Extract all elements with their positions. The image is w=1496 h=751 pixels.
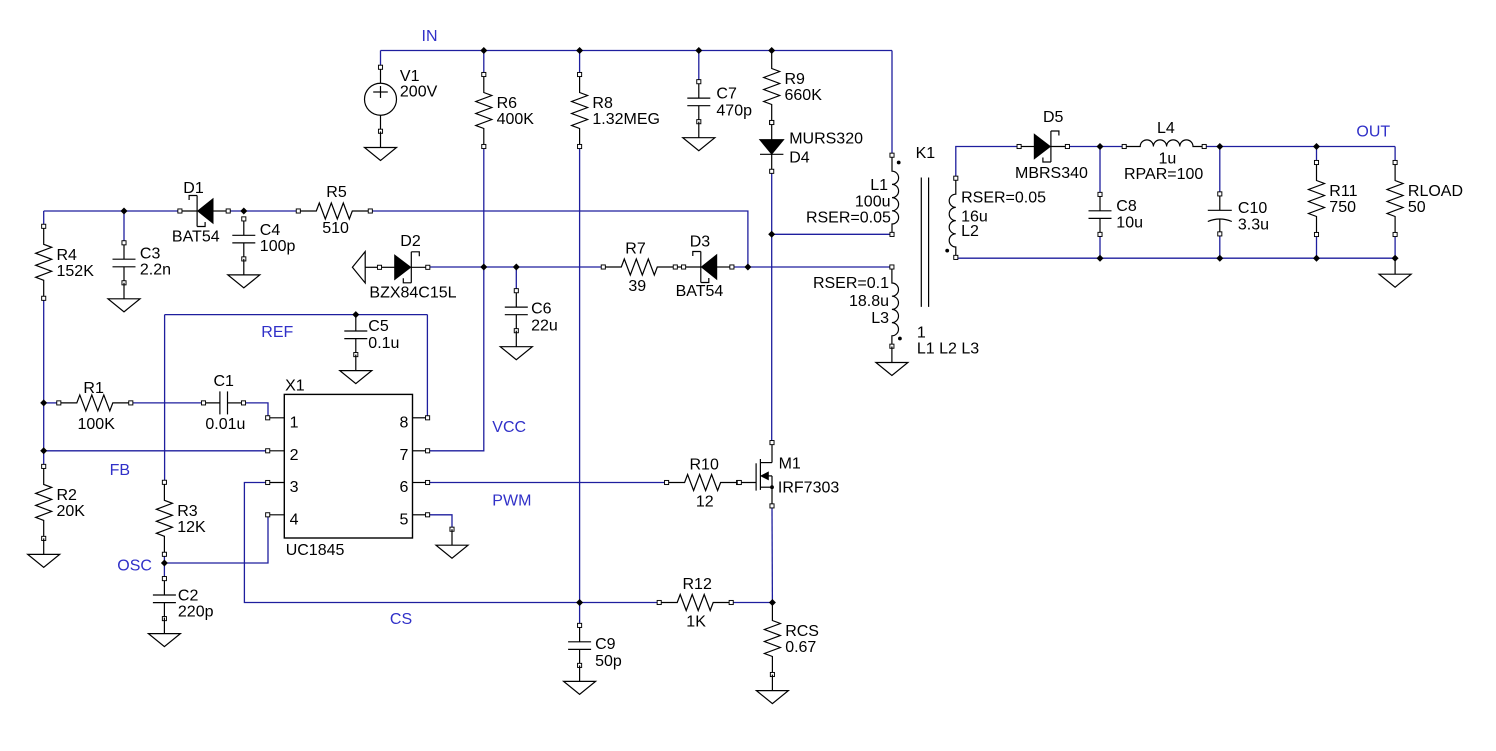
transistor M1 IRF7303 [737,441,839,508]
inductor L2 secondary [949,176,958,259]
ground D2 (rotated left) [352,252,379,283]
svg-text:6: 6 [400,479,409,496]
svg-text:D2: D2 [400,233,421,250]
svg-text:100u: 100u [855,194,891,211]
wire R7-D3 link [676,266,683,268]
L1 phase dot [897,161,901,165]
junction CS RCS [769,599,776,606]
diode D1 BAT54 [172,180,230,246]
svg-text:R1: R1 [83,380,104,397]
wire OSC to pin 4 [164,515,268,563]
wire R6 bottom to VCC rail [483,147,485,268]
resistor R10 [665,456,741,510]
wire R4 column [43,211,45,226]
svg-text:C8: C8 [1116,198,1137,215]
L2 value labels [961,189,1046,240]
junction IN/R6 [480,47,487,54]
wire switch node to M1 drain [771,234,773,442]
junction bottom RLOAD [1392,255,1399,262]
svg-text:510: 510 [322,220,349,237]
wire secondary top L2 to D5 [956,147,1019,179]
junction IN/C7 [695,47,702,54]
svg-text:L3: L3 [871,310,889,327]
svg-text:750: 750 [1329,199,1356,216]
svg-text:VCC: VCC [492,419,526,436]
wire OSC node R3-C2 [163,554,165,578]
junction REF C5 [352,311,359,318]
svg-text:470p: 470p [716,103,752,120]
svg-text:R7: R7 [625,241,646,258]
svg-text:400K: 400K [497,111,535,128]
wire V1 top [380,51,382,68]
svg-text:C10: C10 [1238,200,1267,217]
svg-text:D5: D5 [1043,109,1064,126]
svg-text:1: 1 [290,415,299,432]
wire secondary bottom rail [956,257,1395,259]
wire OUT to RLOAD top [1394,147,1396,163]
resistor R9 [764,51,822,125]
svg-text:REF: REF [261,324,293,341]
ground RCS [756,675,788,704]
svg-text:22u: 22u [531,318,558,335]
svg-text:R12: R12 [683,576,712,593]
svg-text:R11: R11 [1329,183,1357,200]
wire C10 top stub [1219,147,1221,194]
svg-text:L2: L2 [961,223,979,240]
svg-text:IN: IN [422,28,438,45]
wire C7 top [698,51,700,82]
wire C9 top stub [579,603,581,626]
svg-text:C1: C1 [214,373,235,390]
ground C7 [683,122,715,151]
wire R1 row [44,402,59,404]
svg-text:220p: 220p [178,604,214,621]
svg-text:C3: C3 [140,245,161,262]
svg-text:K1: K1 [916,145,936,162]
svg-text:BZX84C15L: BZX84C15L [369,285,456,302]
svg-text:C2: C2 [178,588,199,605]
svg-text:5: 5 [400,511,409,528]
junction IN/R9 [768,47,775,54]
svg-text:20K: 20K [57,503,86,520]
junction bottom C10 [1216,255,1223,262]
resistor R8 [572,72,660,148]
svg-text:R6: R6 [497,95,518,112]
wire REF right vertical to pin 8 [426,315,428,418]
junction FB left [40,447,47,454]
ground C9 [564,665,596,694]
svg-text:R10: R10 [690,456,719,473]
wire D3 anode to L3 [732,266,892,268]
svg-text:PWM: PWM [492,493,531,510]
ground C3 [108,283,140,312]
wire C10 bottom stub [1219,234,1221,258]
wire C8 top stub [1099,147,1101,195]
svg-text:OUT: OUT [1356,124,1390,141]
resistor R5 [296,184,372,237]
junction VCC R6/pin7 [480,264,487,271]
diode D5 MBRS340 [1015,109,1088,182]
svg-text:OSC: OSC [117,558,152,575]
svg-text:C6: C6 [531,301,552,318]
svg-text:RCS: RCS [785,623,819,640]
svg-text:8: 8 [400,415,409,432]
wire pin 7 to VCC [428,267,484,451]
svg-text:4: 4 [290,511,299,528]
wire node A row: R4 to D1 to R5 [44,210,180,212]
wire C3 top [123,211,125,243]
capacitor C8 [1089,192,1144,236]
wire C8 bottom stub [1099,234,1101,258]
diode D4 MURS320 [760,120,863,173]
svg-text:1u: 1u [1159,151,1177,168]
wire R8 bottom to CS node [579,147,581,603]
wire VCC rail D2 to R7 [428,266,604,268]
wire R10 to M1 gate [738,482,741,484]
junction VCC C6 [513,264,520,271]
resistor RCS [764,603,819,677]
wire pin 3 to CS row [244,483,579,603]
L3 value labels [813,275,889,327]
svg-text:18.8u: 18.8u [849,293,889,310]
ground L3 [876,347,908,376]
ground C6 [500,331,532,360]
capacitor C2 [153,577,214,621]
svg-text:1K: 1K [686,614,706,631]
svg-text:L1: L1 [870,177,888,194]
svg-text:660K: 660K [785,87,823,104]
ground output rail [1379,258,1411,287]
wire R11 top stub [1316,147,1318,163]
wire L4 to OUT rail [1204,146,1395,148]
wire R5 right to D3 anode node [370,211,748,267]
svg-text:R2: R2 [57,487,78,504]
capacitor C10 polarized [1208,192,1269,236]
junction R1 left [40,399,47,406]
svg-text:MURS320: MURS320 [789,131,863,148]
L2 phase dot [945,249,949,253]
svg-text:C5: C5 [368,318,389,335]
wire FB row to pin 2 [44,450,268,452]
ground C5 [340,355,372,384]
capacitor C9 [568,623,622,670]
svg-text:0.67: 0.67 [785,639,816,656]
junction CS C9 [576,599,583,606]
capacitor C7 [687,80,752,124]
svg-text:FB: FB [110,462,130,479]
svg-text:2.2n: 2.2n [140,262,171,279]
svg-text:1.32MEG: 1.32MEG [592,111,660,128]
svg-text:IRF7303: IRF7303 [778,480,839,497]
svg-text:152K: 152K [57,263,95,280]
capacitor C5 [344,315,399,357]
capacitor C3 [113,241,172,285]
svg-text:50: 50 [1408,199,1426,216]
svg-text:BAT54: BAT54 [172,229,220,246]
svg-text:D4: D4 [789,150,810,167]
junction node A C3 [121,208,128,215]
wire IN rail [381,50,893,52]
wire RLOAD bottom stub [1394,235,1396,259]
wire REF rail [165,314,428,316]
svg-text:200V: 200V [400,84,438,101]
svg-text:M1: M1 [779,456,801,473]
svg-text:50p: 50p [595,653,622,670]
svg-text:100p: 100p [260,238,296,255]
svg-text:RSER=0.05: RSER=0.05 [806,210,891,227]
ground C4 [228,259,260,288]
wire C1 to pin 1 [244,403,269,418]
op-amp controller X1 UC1845 [266,378,430,560]
junction node A C4 [240,208,247,215]
transformer K1 coupling bars [921,178,928,307]
svg-text:R8: R8 [592,95,613,112]
ground V1 [365,132,397,161]
svg-text:2: 2 [290,447,299,464]
svg-text:UC1845: UC1845 [286,542,345,559]
svg-text:D1: D1 [183,180,204,197]
svg-text:12K: 12K [177,519,206,536]
junction switch node [768,231,775,238]
capacitor C6 [505,289,558,335]
junction IN/R8 [576,47,583,54]
wire D4 to switch node [771,171,773,234]
capacitor C4 [232,217,295,261]
diode D3 BAT54 [676,234,734,300]
svg-text:BAT54: BAT54 [676,283,724,300]
resistor R4 [36,224,94,300]
resistor R3 [156,480,206,556]
svg-text:39: 39 [628,278,646,295]
svg-text:R5: R5 [326,184,347,201]
wire R11 bottom stub [1316,235,1318,259]
ground pin 5 [436,527,468,558]
resistor R12 [657,576,733,630]
junction OUT C8 [1097,143,1104,150]
svg-text:X1: X1 [285,378,305,395]
resistor R11 [1309,160,1358,236]
wire IN to L1 top [891,51,893,156]
wire R6 top [483,51,485,75]
svg-text:RSER=0.1: RSER=0.1 [813,275,889,292]
svg-text:C9: C9 [595,636,616,653]
svg-text:C4: C4 [260,222,281,239]
wire C6 top stub [515,267,517,291]
resistor R7 [601,241,677,295]
svg-text:R4: R4 [57,247,78,264]
junction OSC [161,560,168,567]
svg-text:RSER=0.05: RSER=0.05 [961,189,1046,206]
svg-text:MBRS340: MBRS340 [1015,165,1088,182]
svg-text:100K: 100K [78,416,116,433]
inductor L3 auxiliary [890,265,899,348]
svg-text:RPAR=100: RPAR=100 [1124,166,1203,183]
inductor L1 primary [890,153,899,236]
K1 coupling text [917,325,979,358]
wire D5 to L4 [1067,146,1124,148]
junction D3/L3/R5 [744,264,751,271]
svg-text:CS: CS [390,611,412,628]
svg-text:12: 12 [696,494,714,511]
wire CS row R12 segments [580,602,660,604]
svg-text:V1: V1 [400,68,420,85]
junction bottom C8 [1097,255,1104,262]
resistor RLOAD [1387,160,1463,236]
junction OUT R11 [1313,143,1320,150]
junction bottom R11 [1313,255,1320,262]
wire pin 5 to ground [428,515,452,529]
wire pin 6 PWM row [428,482,667,484]
svg-text:3.3u: 3.3u [1238,217,1269,234]
ground R2 [28,538,60,567]
svg-text:L1 L2 L3: L1 L2 L3 [917,341,979,358]
resistor R6 [476,72,534,148]
svg-text:L4: L4 [1157,120,1175,137]
ground C2 [148,618,180,647]
svg-text:0.1u: 0.1u [368,335,399,352]
svg-text:RLOAD: RLOAD [1408,183,1463,200]
L3 phase dot [898,337,902,341]
svg-text:7: 7 [400,447,409,464]
wire M1 source to RCS [771,506,773,603]
svg-text:R9: R9 [785,71,806,88]
svg-text:1: 1 [917,325,926,342]
inductor L4 [1122,120,1206,183]
L1 value labels [806,177,891,227]
wire REF left vertical to R3 [164,315,166,483]
svg-text:R3: R3 [177,503,198,520]
wire R8 top [579,51,581,75]
resistor R1 [57,380,133,433]
junction OUT C10 [1216,143,1223,150]
svg-text:D3: D3 [690,234,711,251]
wire switch node to L1 bottom [772,233,892,235]
svg-text:10u: 10u [1116,215,1143,232]
zener diode D2 BZX84C15L [369,233,456,302]
svg-text:3: 3 [290,479,299,496]
capacitor C1 [201,373,245,433]
svg-text:0.01u: 0.01u [205,416,245,433]
svg-text:C7: C7 [716,86,737,103]
voltage source V1 [365,65,438,133]
resistor R2 [36,464,86,540]
